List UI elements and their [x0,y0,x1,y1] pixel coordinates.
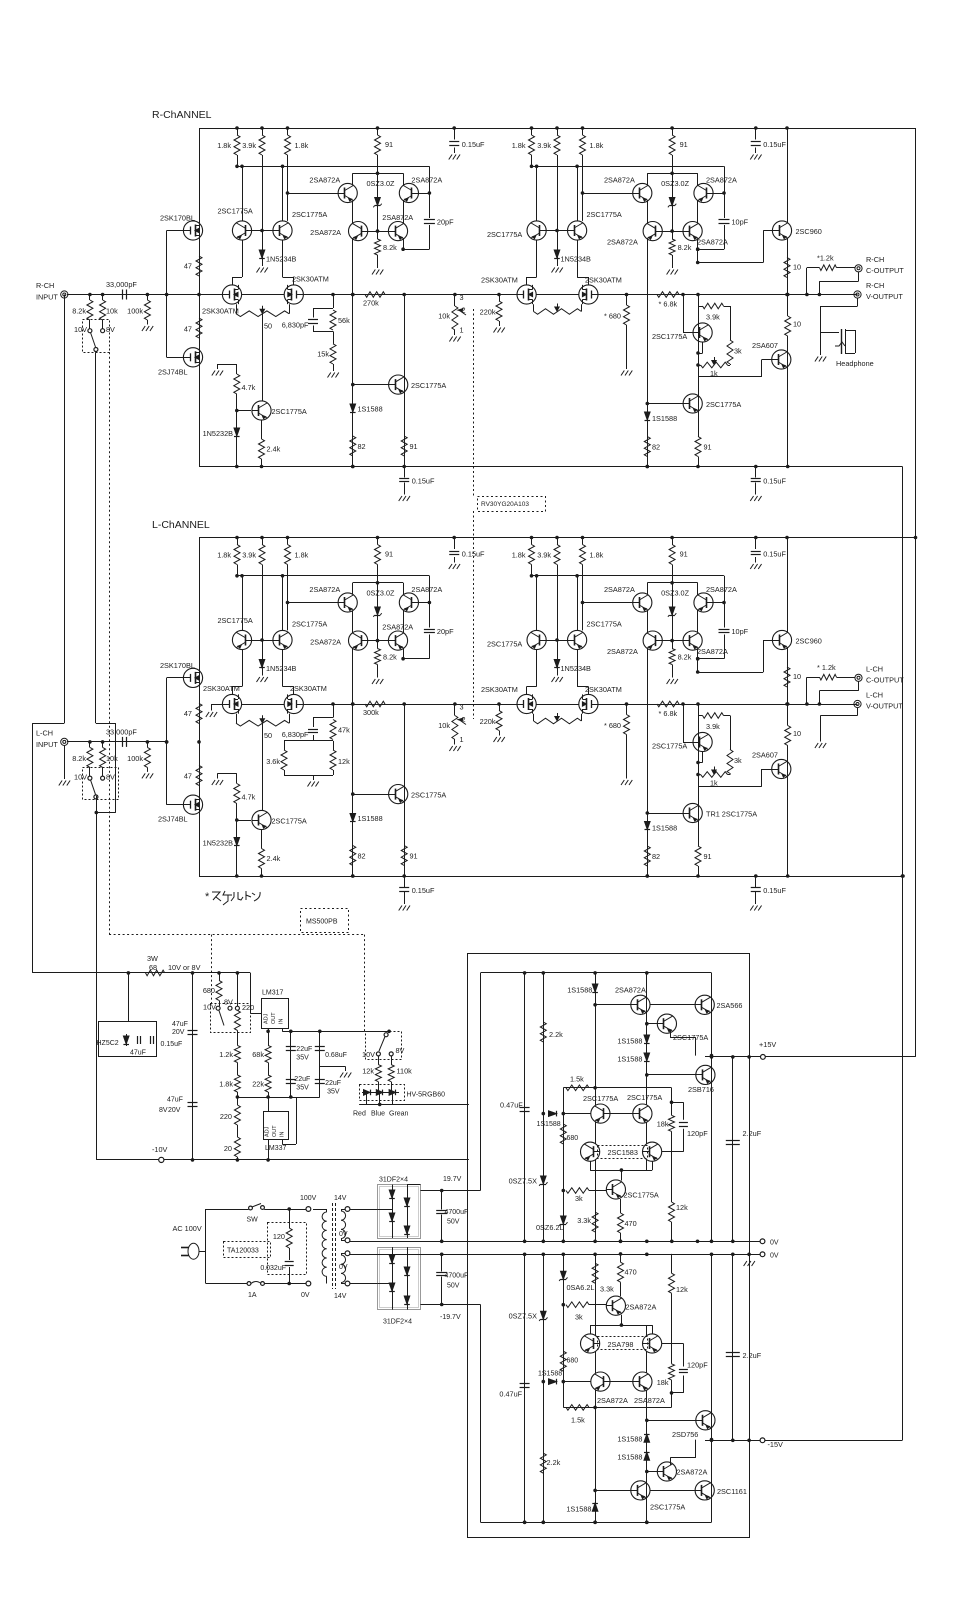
svg-text:3k: 3k [575,1194,583,1203]
svg-text:20V: 20V [172,1029,185,1036]
svg-text:10V: 10V [74,772,87,781]
svg-text:0V: 0V [339,1231,348,1238]
svg-text:50: 50 [264,322,272,331]
svg-text:47: 47 [184,772,192,781]
svg-text:2SK30ATM: 2SK30ATM [481,276,518,285]
svg-text:680: 680 [567,1358,579,1365]
svg-text:10: 10 [793,320,801,329]
svg-text:3.9k: 3.9k [242,551,256,560]
svg-text:1S1588: 1S1588 [652,824,677,833]
svg-text:10pF: 10pF [732,627,749,636]
svg-text:0.15uF: 0.15uF [763,477,786,486]
svg-text:1.5k: 1.5k [570,1075,584,1084]
svg-text:680: 680 [567,1135,579,1142]
svg-text:10: 10 [793,729,801,738]
svg-text:3k: 3k [575,1313,583,1322]
svg-text:2SC1775A: 2SC1775A [487,640,522,649]
svg-text:2SC1775A: 2SC1775A [673,1033,708,1042]
svg-text:2SA872A: 2SA872A [604,176,635,185]
svg-text:470: 470 [625,1219,637,1228]
svg-text:1.8k: 1.8k [217,141,231,150]
svg-text:0.15uF: 0.15uF [462,140,485,149]
svg-text:14V: 14V [334,1195,347,1202]
svg-text:2.2k: 2.2k [549,1030,563,1039]
svg-text:1: 1 [460,735,464,744]
svg-text:1.8k: 1.8k [219,1080,233,1089]
svg-text:2SA566: 2SA566 [717,1001,743,1010]
svg-text:0SZ3.0Z: 0SZ3.0Z [367,179,396,188]
svg-text:0V: 0V [770,1240,779,1247]
svg-text:MS500PB: MS500PB [306,919,338,926]
svg-text:1N5234B: 1N5234B [561,255,592,264]
svg-text:Grean: Grean [389,1111,409,1118]
svg-text:2SA872A: 2SA872A [309,176,340,185]
svg-text:68k: 68k [252,1050,264,1059]
svg-text:2SA872A: 2SA872A [310,638,341,647]
svg-text:91: 91 [704,443,712,452]
svg-text:8V: 8V [106,325,115,334]
svg-text:91: 91 [385,550,393,559]
svg-text:8V: 8V [159,1107,168,1114]
svg-text:1.5k: 1.5k [571,1416,585,1425]
svg-text:1S1588: 1S1588 [566,1505,591,1514]
svg-text:2SA872A: 2SA872A [607,647,638,656]
svg-text:10V: 10V [203,1003,216,1012]
svg-text:47uF: 47uF [167,1097,183,1104]
svg-text:3: 3 [460,703,464,712]
svg-text:6,830pF: 6,830pF [282,730,309,739]
svg-text:AC 100V: AC 100V [173,1224,202,1233]
svg-text:1S1588: 1S1588 [358,405,383,414]
svg-text:47: 47 [184,262,192,271]
svg-text:SW: SW [247,1217,259,1224]
svg-text:100k: 100k [127,754,143,763]
svg-text:2SA872A: 2SA872A [634,1396,665,1405]
svg-text:2SD756: 2SD756 [672,1430,698,1439]
svg-text:2SA872A: 2SA872A [597,1396,628,1405]
svg-text:1.8k: 1.8k [590,141,604,150]
svg-text:0SZ3.0Z: 0SZ3.0Z [367,589,396,598]
svg-text:2SK30ATM: 2SK30ATM [290,684,327,693]
svg-text:2SA872A: 2SA872A [615,986,646,995]
svg-text:82: 82 [652,443,660,452]
svg-text:50V: 50V [447,1283,460,1290]
svg-text:1S1588: 1S1588 [358,814,383,823]
svg-text:IN: IN [279,1018,285,1024]
svg-text:0SZ6.2L: 0SZ6.2L [536,1223,564,1232]
svg-text:1N5232B: 1N5232B [203,839,234,848]
svg-text:2.2uF: 2.2uF [743,1129,762,1138]
svg-text:12k: 12k [338,757,350,766]
svg-text:47uF: 47uF [172,1021,188,1028]
svg-text:2SA872A: 2SA872A [706,176,737,185]
svg-text:91: 91 [385,140,393,149]
svg-text:20V: 20V [168,1107,181,1114]
svg-text:2.4k: 2.4k [267,854,281,863]
svg-text:1S1588: 1S1588 [617,1435,642,1444]
svg-text:2SC960: 2SC960 [796,227,822,236]
svg-text:15k: 15k [317,350,329,359]
svg-text:2SJ74BL: 2SJ74BL [158,367,188,376]
svg-text:100k: 100k [127,307,143,316]
svg-text:V-OUTPUT: V-OUTPUT [866,702,903,711]
svg-text:2SA872A: 2SA872A [604,585,635,594]
svg-text:22k: 22k [252,1080,264,1089]
svg-text:0.15uF: 0.15uF [763,140,786,149]
svg-text:1.2k: 1.2k [219,1050,233,1059]
svg-text:10V: 10V [362,1050,375,1059]
svg-text:2.4k: 2.4k [267,445,281,454]
svg-text:-10V: -10V [152,1145,168,1154]
svg-text:1N5234B: 1N5234B [266,664,297,673]
svg-text:220: 220 [242,1003,254,1012]
svg-text:0.032uF: 0.032uF [260,1265,286,1272]
svg-text:0.47uF: 0.47uF [500,1101,523,1110]
svg-text:1.8k: 1.8k [512,141,526,150]
svg-text:3W: 3W [147,954,158,963]
svg-text:-15V: -15V [768,1440,784,1449]
svg-text:2SC960: 2SC960 [796,637,822,646]
svg-text:33,000pF: 33,000pF [106,280,137,289]
svg-text:10: 10 [793,263,801,272]
svg-text:2SA872A: 2SA872A [411,176,442,185]
svg-text:*: * [205,891,210,903]
svg-text:91: 91 [680,140,688,149]
svg-text:4.7k: 4.7k [242,793,256,802]
svg-text:2.2k: 2.2k [547,1458,561,1467]
svg-text:2SA872A: 2SA872A [697,238,728,247]
svg-text:4700uF: 4700uF [445,1273,469,1280]
svg-text:2SC1775A: 2SC1775A [272,817,307,826]
svg-text:8.2k: 8.2k [72,307,86,316]
svg-text:47uF: 47uF [130,1050,146,1057]
svg-text:TA120033: TA120033 [227,1248,259,1255]
svg-text:35V: 35V [327,1089,340,1096]
svg-text:8V: 8V [396,1046,405,1055]
svg-text:1: 1 [460,326,464,335]
svg-text:2SC1775A: 2SC1775A [652,742,687,751]
svg-text:10pF: 10pF [732,218,749,227]
svg-text:0SZ3.0Z: 0SZ3.0Z [661,179,690,188]
svg-text:12k: 12k [676,1203,688,1212]
svg-text:3.3k: 3.3k [600,1285,614,1294]
svg-text:3.9k: 3.9k [537,551,551,560]
svg-text:6,830pF: 6,830pF [282,321,309,330]
svg-text:2SA607: 2SA607 [752,341,778,350]
svg-text:ADJ: ADJ [264,1013,270,1024]
svg-text:L-CH: L-CH [866,691,883,700]
svg-text:INPUT: INPUT [36,740,58,749]
svg-text:HZ5C2: HZ5C2 [97,1040,119,1047]
svg-text:* 6.8k: * 6.8k [659,300,678,309]
svg-text:1S1588: 1S1588 [617,1037,642,1046]
svg-text:-19.7V: -19.7V [440,1314,461,1321]
svg-text:OUT: OUT [272,1125,278,1137]
svg-text:1.8k: 1.8k [590,551,604,560]
svg-text:OUT: OUT [271,1012,277,1024]
svg-text:10k: 10k [438,721,450,730]
svg-text:R-ChANNEL: R-ChANNEL [152,109,212,121]
svg-text:1.8k: 1.8k [295,551,309,560]
svg-text:0.15uF: 0.15uF [161,1041,183,1048]
svg-text:0.15uF: 0.15uF [763,886,786,895]
svg-text:10V or 8V: 10V or 8V [168,963,201,972]
svg-text:2SA607: 2SA607 [752,751,778,760]
svg-text:2SC1775A: 2SC1775A [587,620,622,629]
svg-text:TR1 2SC1775A: TR1 2SC1775A [706,810,757,819]
svg-text:3k: 3k [734,347,742,356]
svg-text:82: 82 [358,852,366,861]
svg-text:* 1.2k: * 1.2k [817,663,836,672]
svg-text:1.8k: 1.8k [512,551,526,560]
svg-text:3.9k: 3.9k [537,141,551,150]
svg-text:V-OUTPUT: V-OUTPUT [866,292,903,301]
svg-text:22uF: 22uF [325,1080,341,1087]
svg-text:0.68uF: 0.68uF [325,1052,347,1059]
svg-text:0SZ7.5X: 0SZ7.5X [509,1312,538,1321]
svg-text:+15V: +15V [759,1040,776,1049]
svg-text:14V: 14V [334,1293,347,1300]
svg-text:0V: 0V [339,1264,348,1271]
svg-text:33,000pF: 33,000pF [106,727,137,736]
svg-text:2SA872A: 2SA872A [677,1468,708,1477]
svg-text:2SA872A: 2SA872A [309,585,340,594]
svg-text:1S1588: 1S1588 [617,1453,642,1462]
svg-text:IN: IN [280,1131,286,1137]
svg-text:35V: 35V [296,1055,309,1062]
svg-text:4700uF: 4700uF [445,1209,469,1216]
svg-text:0V: 0V [301,1292,310,1299]
svg-text:L-CH: L-CH [866,665,883,674]
svg-text:R-CH: R-CH [866,255,884,264]
svg-text:50: 50 [264,731,272,740]
svg-text:2SC1775A: 2SC1775A [218,616,253,625]
svg-text:1A: 1A [248,1292,257,1299]
svg-text:3: 3 [460,293,464,302]
svg-text:C-OUTPUT: C-OUTPUT [866,266,904,275]
svg-text:2.2uF: 2.2uF [743,1351,762,1360]
svg-text:2SC1775A: 2SC1775A [487,230,522,239]
svg-text:12k: 12k [362,1067,374,1076]
svg-text:INPUT: INPUT [36,293,58,302]
svg-text:L-ChANNEL: L-ChANNEL [152,519,210,531]
svg-text:3.9k: 3.9k [706,722,720,731]
svg-text:8.2k: 8.2k [383,243,397,252]
svg-text:100V: 100V [300,1195,317,1202]
svg-text:2SC1161: 2SC1161 [717,1487,747,1496]
svg-text:LM317: LM317 [262,990,284,997]
svg-text:10k: 10k [106,307,118,316]
svg-text:1N5234B: 1N5234B [561,664,592,673]
svg-text:3.6k: 3.6k [266,757,280,766]
svg-text:0.15uF: 0.15uF [763,550,786,559]
svg-text:2SC1583: 2SC1583 [608,1148,638,1157]
svg-text:22uF: 22uF [294,1076,310,1083]
svg-text:2SC1775A: 2SC1775A [627,1093,662,1102]
svg-text:1S1588: 1S1588 [617,1055,642,1064]
svg-text:2SB716: 2SB716 [688,1085,714,1094]
svg-text:1S1588: 1S1588 [567,986,592,995]
svg-text:* 6.8k: * 6.8k [659,709,678,718]
svg-text:110k: 110k [397,1067,413,1076]
svg-text:0.47uF: 0.47uF [499,1390,522,1399]
svg-text:2SA798: 2SA798 [608,1340,634,1349]
svg-text:1N5234B: 1N5234B [266,255,297,264]
svg-text:91: 91 [410,442,418,451]
svg-text:2SC1775A: 2SC1775A [706,400,741,409]
svg-text:0.15uF: 0.15uF [412,477,435,486]
svg-text:8.2k: 8.2k [678,243,692,252]
svg-text:220k: 220k [480,717,496,726]
svg-text:2SC1775A: 2SC1775A [292,210,327,219]
svg-text:19.7V: 19.7V [443,1176,462,1183]
svg-text:47k: 47k [338,726,350,735]
svg-text:300k: 300k [363,708,379,717]
svg-text:35V: 35V [296,1085,309,1092]
svg-text:50V: 50V [447,1219,460,1226]
svg-text:2SC1775A: 2SC1775A [272,407,307,416]
svg-text:3.3k: 3.3k [577,1216,591,1225]
svg-text:120: 120 [273,1232,285,1241]
svg-text:68: 68 [149,963,157,972]
svg-text:220: 220 [220,1112,232,1121]
svg-text:8.2k: 8.2k [383,653,397,662]
svg-text:0SA6.2L: 0SA6.2L [567,1283,595,1292]
svg-text:2SC1775A: 2SC1775A [218,207,253,216]
svg-text:2SC1775A: 2SC1775A [652,332,687,341]
svg-text:4.7k: 4.7k [242,383,256,392]
svg-text:8.2k: 8.2k [678,653,692,662]
svg-text:270k: 270k [363,299,379,308]
svg-text:2SK30ATM: 2SK30ATM [585,685,622,694]
svg-text:10V: 10V [74,325,87,334]
svg-text:91: 91 [410,852,418,861]
svg-text:2SK30ATM: 2SK30ATM [292,275,329,284]
svg-text:3.9k: 3.9k [242,141,256,150]
svg-text:10k: 10k [106,754,118,763]
svg-text:82: 82 [358,442,366,451]
svg-text:20pF: 20pF [437,218,454,227]
svg-text:L-CH: L-CH [36,728,53,737]
svg-text:12k: 12k [676,1285,688,1294]
svg-text:2SK30ATM: 2SK30ATM [203,684,240,693]
svg-text:470: 470 [625,1268,637,1277]
svg-text:220k: 220k [480,308,496,317]
svg-text:2SC1775A: 2SC1775A [587,210,622,219]
svg-text:2SA872A: 2SA872A [607,238,638,247]
svg-text:C-OUTPUT: C-OUTPUT [866,676,904,685]
svg-text:20: 20 [224,1144,232,1153]
svg-text:47: 47 [184,709,192,718]
svg-text:1S1588: 1S1588 [537,1121,561,1128]
svg-text:20pF: 20pF [437,627,454,636]
svg-text:82: 82 [652,852,660,861]
svg-text:0V: 0V [770,1253,779,1260]
svg-text:91: 91 [680,550,688,559]
svg-text:91: 91 [704,852,712,861]
svg-text:2SA872A: 2SA872A [382,213,413,222]
svg-text:10k: 10k [438,312,450,321]
svg-text:2SC1775A: 2SC1775A [292,620,327,629]
svg-text:* 680: * 680 [604,721,621,730]
svg-text:22uF: 22uF [296,1046,312,1053]
svg-text:18k: 18k [657,1120,669,1129]
svg-text:Red: Red [353,1111,366,1118]
svg-text:3k: 3k [734,756,742,765]
svg-text:2SC1775A: 2SC1775A [624,1191,659,1200]
svg-text:* 680: * 680 [604,312,621,321]
svg-text:1S1588: 1S1588 [538,1371,562,1378]
svg-text:R-CH: R-CH [36,281,54,290]
svg-text:2SK170BL: 2SK170BL [160,661,195,670]
svg-text:2SA872A: 2SA872A [626,1303,657,1312]
svg-text:120pF: 120pF [687,1361,708,1370]
svg-text:2SC1775A: 2SC1775A [411,791,446,800]
svg-text:0.15uF: 0.15uF [412,886,435,895]
svg-text:47: 47 [184,324,192,333]
svg-text:31DF2×4: 31DF2×4 [383,1319,412,1326]
svg-text:2SA872A: 2SA872A [411,585,442,594]
svg-text:0SZ7.5X: 0SZ7.5X [509,1177,538,1186]
svg-text:2SK170BL: 2SK170BL [160,214,195,223]
svg-text:3.9k: 3.9k [706,313,720,322]
svg-text:2SA872A: 2SA872A [310,228,341,237]
svg-text:2SC1775A: 2SC1775A [583,1094,618,1103]
svg-text:2SK30ATM: 2SK30ATM [585,276,622,285]
svg-text:2SA872A: 2SA872A [697,647,728,656]
svg-text:8V: 8V [224,998,233,1007]
svg-text:R-CH: R-CH [866,281,884,290]
svg-text:1S1588: 1S1588 [652,414,677,423]
svg-text:2SK30ATM: 2SK30ATM [481,685,518,694]
svg-text:2SK30ATM: 2SK30ATM [202,307,239,316]
svg-text:ADJ: ADJ [265,1126,271,1137]
svg-text:8V: 8V [106,772,115,781]
svg-text:18k: 18k [657,1378,669,1387]
svg-text:1.8k: 1.8k [217,551,231,560]
svg-text:2SC1775A: 2SC1775A [650,1503,685,1512]
svg-text:1N5232B: 1N5232B [203,429,234,438]
svg-text:2SA872A: 2SA872A [382,623,413,632]
svg-text:10: 10 [793,672,801,681]
svg-text:2SA872A: 2SA872A [706,585,737,594]
svg-text:680: 680 [203,986,215,995]
svg-text:RV30YG20A103: RV30YG20A103 [481,501,529,508]
svg-text:Blue: Blue [371,1111,385,1118]
svg-text:*1.2k: *1.2k [817,254,834,263]
svg-text:HV-5RGB60: HV-5RGB60 [407,1092,446,1099]
svg-text:56k: 56k [338,316,350,325]
svg-text:2SC1775A: 2SC1775A [411,381,446,390]
svg-text:2SJ74BL: 2SJ74BL [158,815,188,824]
svg-text:31DF2×4: 31DF2×4 [379,1177,408,1184]
svg-text:1.8k: 1.8k [295,141,309,150]
svg-text:8.2k: 8.2k [72,754,86,763]
svg-text:120pF: 120pF [687,1129,708,1138]
svg-text:0SZ3.0Z: 0SZ3.0Z [661,589,690,598]
svg-text:Headphone: Headphone [836,359,874,368]
